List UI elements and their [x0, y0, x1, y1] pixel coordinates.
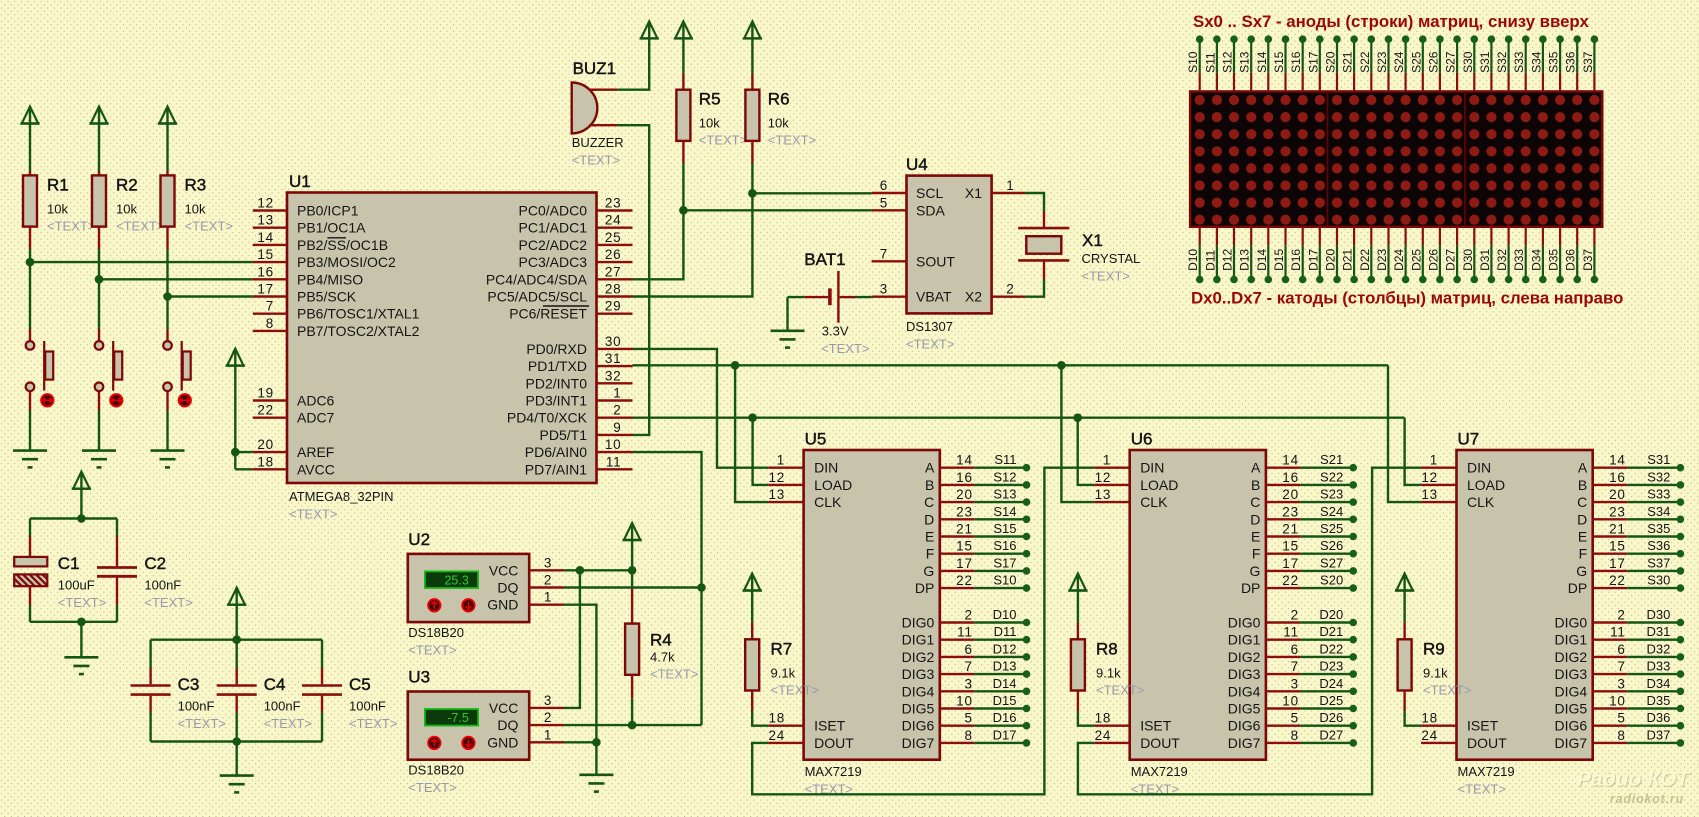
svg-text:15: 15 — [1609, 539, 1626, 554]
svg-text:VBAT: VBAT — [916, 289, 952, 305]
&lt;TEXT&gt; of U7 — [1458, 782, 1506, 797]
svg-text:D: D — [1250, 511, 1260, 527]
svg-text:E: E — [1251, 529, 1260, 545]
wire CLK branch to U6 — [1061, 365, 1094, 502]
terminal dot D35 end — [1677, 705, 1685, 713]
pin 16 B of U6, net S22 — [1251, 469, 1353, 493]
junction R4 bottom node — [628, 721, 637, 730]
svg-text:S17: S17 — [1306, 51, 1320, 73]
down button of U2 — [462, 599, 474, 611]
resistor R1 body — [23, 175, 37, 226]
svg-text:21: 21 — [956, 522, 973, 537]
svg-text:8: 8 — [1291, 728, 1299, 743]
op U5 box (MAX7219) — [804, 450, 940, 760]
wire LOAD branch to U7 — [1405, 418, 1422, 485]
pin 1 X1 of U4 — [965, 178, 1025, 201]
terminal dot terminal S20 — [1333, 35, 1341, 43]
terminal dot terminal S21 — [1350, 35, 1358, 43]
svg-text:S22: S22 — [1358, 51, 1372, 73]
svg-text:20: 20 — [1282, 487, 1299, 502]
svg-text:3: 3 — [544, 555, 552, 570]
pin 7 SOUT of U4 — [872, 246, 956, 269]
svg-text:R8: R8 — [1096, 639, 1118, 658]
junction R2 / PB net — [95, 275, 104, 284]
value 9.1k of R9 — [1423, 665, 1448, 680]
svg-text:DIG6: DIG6 — [1228, 718, 1261, 734]
svg-text:<TEXT>: <TEXT> — [1458, 782, 1506, 797]
svg-text:DIG4: DIG4 — [1555, 683, 1588, 699]
svg-text:S11: S11 — [1203, 52, 1217, 73]
terminal dot terminal D22 — [1368, 276, 1376, 284]
op U1 box (ATMEGA8) — [287, 193, 597, 484]
&lt;TEXT&gt; of X1 — [1082, 269, 1130, 284]
terminal dot terminal D34 — [1539, 276, 1547, 284]
svg-text:3: 3 — [964, 676, 972, 691]
value BUZZER of BUZ1 — [572, 135, 624, 150]
svg-text:S10: S10 — [1186, 51, 1200, 73]
pin 8 PB7/TOSC2/XTAL2 of U1 — [253, 316, 420, 339]
terminal dot terminal S17 — [1316, 35, 1324, 43]
matrix cathode pin D13 — [1238, 227, 1252, 280]
pin 21 E of U7, net S35 — [1578, 521, 1681, 545]
op U6 box (MAX7219) — [1130, 450, 1266, 760]
svg-text:F: F — [1579, 546, 1588, 562]
power symbol VCC arrow above R near U5 — [743, 574, 762, 591]
pin 7 PB6/TOSC1/XTAL1 of U1 — [253, 299, 420, 322]
matrix anode pin S22 — [1358, 39, 1372, 91]
svg-text:<TEXT>: <TEXT> — [572, 153, 620, 168]
svg-text:<TEXT>: <TEXT> — [771, 682, 819, 697]
svg-text:14: 14 — [257, 230, 274, 245]
svg-text:S16: S16 — [1289, 51, 1303, 73]
svg-text:DIG1: DIG1 — [1555, 632, 1588, 648]
wire U4 X1 pin to crystal — [1025, 193, 1044, 227]
pin 16 B of U7, net S32 — [1578, 469, 1681, 493]
matrix anode pin S20 — [1324, 39, 1338, 91]
terminal dot terminal S24 — [1402, 35, 1410, 43]
value 100nF of C3 — [178, 699, 215, 714]
pin 22 ADC7 of U1 — [253, 403, 335, 426]
svg-text:DIG5: DIG5 — [902, 701, 935, 717]
svg-text:CLK: CLK — [814, 494, 842, 510]
matrix anode pin S36 — [1564, 39, 1578, 91]
svg-text:S13: S13 — [1238, 51, 1252, 73]
wire net R3 to U1 — [168, 295, 253, 297]
wire VCC branch down to U3 VCC — [564, 570, 580, 708]
matrix cathode pin D20 — [1324, 227, 1338, 280]
terminal dot terminal D10 — [1196, 276, 1204, 284]
pin 21 E of U6, net S25 — [1251, 521, 1353, 545]
svg-text:G: G — [1576, 563, 1587, 579]
svg-text:<TEXT>: <TEXT> — [349, 716, 397, 731]
power symbol VCC arrow above R3 — [158, 107, 177, 124]
svg-text:DIG2: DIG2 — [1228, 649, 1261, 665]
svg-text:1: 1 — [613, 386, 621, 401]
svg-text:5: 5 — [1291, 711, 1299, 726]
svg-text:DIG0: DIG0 — [1555, 615, 1588, 631]
pin 20 C of U5, net S13 — [924, 487, 1026, 511]
op U7 box (MAX7219) — [1457, 450, 1593, 760]
terminal dot S24 end — [1349, 516, 1357, 524]
svg-text:D15: D15 — [1272, 249, 1286, 271]
svg-text:<TEXT>: <TEXT> — [264, 716, 312, 731]
pin 5 DIG6 of U6, net D26 — [1228, 710, 1353, 734]
svg-text:D35: D35 — [1647, 693, 1671, 708]
svg-text:<TEXT>: <TEXT> — [58, 595, 106, 610]
pin 11 DIG1 of U5, net D11 — [902, 624, 1027, 648]
resistor R4 body — [625, 624, 639, 675]
svg-text:13: 13 — [1421, 487, 1438, 502]
terminal dot D37 end — [1677, 739, 1685, 747]
pin 10 DIG5 of U6, net D25 — [1228, 693, 1353, 717]
svg-text:11: 11 — [1283, 625, 1299, 640]
terminal dot S33 end — [1677, 498, 1685, 506]
pin 20 C of U6, net S23 — [1250, 487, 1353, 511]
wire C3/C4/C5 bottom to ground — [235, 742, 237, 776]
wire R1 bottom to button SW1 — [29, 227, 31, 341]
svg-text:PB6/TOSC1/XTAL1: PB6/TOSC1/XTAL1 — [297, 306, 420, 322]
svg-text:DIG5: DIG5 — [1228, 701, 1261, 717]
terminal dot S11 end — [1023, 464, 1031, 472]
value 100uF of C1 — [58, 578, 95, 593]
svg-text:GND: GND — [487, 597, 518, 613]
svg-text:A: A — [925, 460, 935, 476]
svg-text:1: 1 — [777, 453, 785, 468]
svg-text:DS18B20: DS18B20 — [408, 763, 464, 778]
wire C1/C2 bottom rail — [30, 621, 117, 623]
svg-text:S37: S37 — [1581, 51, 1595, 73]
pin 24 DOUT of U6 — [1094, 728, 1180, 751]
svg-text:E: E — [1578, 529, 1587, 545]
svg-text:DS1307: DS1307 — [906, 319, 953, 334]
terminal dot terminal D16 — [1299, 276, 1307, 284]
svg-text:6: 6 — [1617, 642, 1625, 657]
svg-text:S23: S23 — [1320, 487, 1343, 502]
svg-text:DP: DP — [1568, 580, 1587, 596]
pin 15 F of U5, net S16 — [926, 538, 1027, 562]
svg-text:DIG6: DIG6 — [902, 718, 935, 734]
matrix anode pin S30 — [1461, 39, 1475, 91]
pin 7 DIG3 of U7, net D33 — [1555, 659, 1681, 683]
pin 10 DIG5 of U5, net D15 — [902, 693, 1027, 717]
label C2 — [144, 554, 166, 573]
terminal dot D15 end — [1023, 705, 1031, 713]
svg-text:R6: R6 — [768, 90, 790, 109]
pin 12 LOAD of U5 — [768, 470, 852, 493]
label R7 — [771, 639, 793, 658]
svg-text:S27: S27 — [1444, 51, 1458, 73]
terminal dot S14 end — [1023, 516, 1031, 524]
svg-text:2: 2 — [964, 608, 972, 623]
matrix cathode pin D35 — [1547, 227, 1561, 280]
svg-text:R5: R5 — [699, 90, 721, 109]
svg-text:23: 23 — [605, 196, 622, 211]
matrix anode pin S23 — [1375, 39, 1389, 91]
svg-text:-7.5: -7.5 — [447, 711, 469, 725]
matrix anode pin S31 — [1478, 39, 1492, 91]
svg-text:<TEXT>: <TEXT> — [289, 507, 337, 522]
svg-text:16: 16 — [1609, 470, 1626, 485]
wire R2 bottom to button SW2 — [98, 227, 100, 341]
svg-text:S12: S12 — [993, 469, 1016, 484]
&lt;TEXT&gt; of BAT1 — [821, 341, 869, 356]
svg-text:G: G — [923, 563, 934, 579]
svg-text:S30: S30 — [1647, 573, 1670, 588]
svg-text:DQ: DQ — [497, 580, 518, 596]
wire R7 to U5 ISET — [752, 691, 768, 726]
terminal dot terminal D24 — [1402, 276, 1410, 284]
wire net R1 to U1 — [30, 261, 253, 263]
wire GND net U3 — [564, 741, 597, 743]
junction C1/C2 bottom — [77, 618, 86, 627]
value 100nF of C4 — [264, 699, 301, 714]
svg-text:D17: D17 — [1306, 249, 1320, 271]
svg-text:<TEXT>: <TEXT> — [906, 337, 954, 352]
svg-text:D36: D36 — [1564, 249, 1578, 271]
pin 11 PD7/AIN1 of U1 — [525, 454, 633, 477]
svg-text:D24: D24 — [1319, 676, 1343, 691]
terminal dot D20 end — [1349, 619, 1357, 627]
pin 13 CLK of U6 — [1094, 487, 1168, 510]
svg-text:9.1k: 9.1k — [1423, 665, 1448, 680]
terminal dot S35 end — [1677, 533, 1685, 541]
svg-text:27: 27 — [605, 264, 622, 279]
matrix cathode pin D25 — [1409, 227, 1423, 280]
svg-text:18: 18 — [257, 454, 274, 469]
terminal dot D22 end — [1349, 653, 1357, 661]
svg-text:S26: S26 — [1320, 538, 1343, 553]
terminal dot D24 end — [1349, 688, 1357, 696]
wire battery to ground — [786, 297, 788, 331]
svg-text:S20: S20 — [1324, 51, 1338, 73]
pin 25 PC2/ADC2 of U1 — [519, 230, 633, 253]
svg-text:10k: 10k — [185, 201, 206, 216]
matrix anode pin S16 — [1289, 39, 1303, 91]
pin 2 DIG0 of U5, net D10 — [902, 607, 1027, 631]
pin 23 D of U6, net S24 — [1250, 504, 1353, 528]
svg-text:4.7k: 4.7k — [650, 650, 675, 665]
wire R3 bottom to button SW3 — [166, 227, 168, 341]
pin 3 DIG4 of U6, net D24 — [1228, 676, 1353, 700]
terminal dot terminal S14 — [1265, 35, 1273, 43]
capacitor C4 — [217, 640, 257, 742]
svg-text:C2: C2 — [144, 554, 166, 573]
matrix cathode pin D36 — [1564, 227, 1578, 280]
svg-text:100uF: 100uF — [58, 578, 95, 593]
button SW3 actuator marker — [179, 394, 191, 406]
svg-text:20: 20 — [1609, 487, 1626, 502]
ground ground below sensors — [579, 775, 613, 792]
svg-text:D14: D14 — [1255, 249, 1269, 271]
value DS18B20 of U3 — [408, 763, 464, 778]
svg-text:DIN: DIN — [1467, 460, 1491, 476]
svg-text:D26: D26 — [1319, 710, 1343, 725]
svg-text:10k: 10k — [116, 201, 137, 216]
button SW1 actuator marker — [41, 394, 53, 406]
svg-text:DOUT: DOUT — [814, 735, 854, 751]
terminal dot S20 end — [1349, 584, 1357, 592]
svg-text:PC4/ADC4/SDA: PC4/ADC4/SDA — [486, 271, 588, 287]
junction U2 DQ node — [697, 583, 706, 592]
power symbol VCC arrow above C3 C4 C5 — [227, 588, 246, 605]
matrix cathode pin D34 — [1529, 227, 1543, 280]
terminal dot terminal S11 — [1213, 35, 1221, 43]
svg-text:<TEXT>: <TEXT> — [699, 133, 747, 148]
terminal dot D16 end — [1023, 722, 1031, 730]
svg-text:D30: D30 — [1461, 249, 1475, 271]
terminal dot D23 end — [1349, 670, 1357, 678]
label R8 — [1096, 639, 1118, 658]
svg-text:G: G — [1250, 563, 1261, 579]
svg-text:U6: U6 — [1131, 430, 1153, 449]
svg-text:7: 7 — [1617, 659, 1625, 674]
svg-text:PC0/ADC0: PC0/ADC0 — [519, 203, 588, 219]
label U2 — [408, 530, 430, 549]
terminal dot S25 end — [1349, 533, 1357, 541]
value 10k of R6 — [768, 116, 789, 131]
svg-text:S14: S14 — [993, 504, 1016, 519]
svg-text:7: 7 — [1291, 659, 1299, 674]
junction CLK node U5 — [731, 361, 740, 370]
label U6 — [1131, 430, 1153, 449]
svg-text:1: 1 — [544, 590, 552, 605]
ground ground below SW2 — [82, 451, 116, 468]
terminal dot terminal S35 — [1556, 35, 1564, 43]
svg-text:F: F — [926, 546, 935, 562]
svg-text:2: 2 — [1291, 608, 1299, 623]
pin 24 DOUT of U7 — [1421, 728, 1507, 751]
svg-text:S34: S34 — [1529, 51, 1543, 73]
pin 1 PD3/INT1 of U1 — [526, 386, 633, 409]
terminal dot terminal S31 — [1488, 35, 1496, 43]
svg-text:2: 2 — [544, 710, 552, 725]
label X1 — [1082, 231, 1103, 250]
svg-text:S13: S13 — [993, 487, 1016, 502]
wire VCC arrow to AREF/AVCC — [235, 366, 253, 470]
svg-text:9: 9 — [613, 420, 621, 435]
terminal dot S31 end — [1677, 464, 1685, 472]
pin 22 DP of U6, net S20 — [1241, 573, 1353, 597]
pin 2 DIG0 of U6, net D20 — [1228, 607, 1353, 631]
pin 3 DIG4 of U7, net D34 — [1555, 676, 1681, 700]
pin 21 E of U5, net S15 — [925, 521, 1027, 545]
svg-text:DIG0: DIG0 — [902, 615, 935, 631]
pin 15 F of U6, net S26 — [1252, 538, 1353, 562]
pin 3 DIG4 of U5, net D14 — [902, 676, 1027, 700]
junction CLK node U6 — [1057, 361, 1066, 370]
svg-text:2: 2 — [1617, 608, 1625, 623]
svg-text:7: 7 — [880, 246, 888, 261]
svg-text:B: B — [1251, 477, 1260, 493]
svg-text:23: 23 — [1282, 504, 1299, 519]
svg-text:C5: C5 — [349, 675, 371, 694]
ground ground below C3/C4/C5 — [220, 776, 254, 793]
svg-text:B: B — [1578, 477, 1587, 493]
svg-text:PC3/ADC3: PC3/ADC3 — [519, 254, 588, 270]
label R3 — [185, 175, 207, 194]
svg-text:D: D — [1577, 511, 1587, 527]
svg-text:30: 30 — [605, 334, 622, 349]
svg-text:100nF: 100nF — [264, 699, 301, 714]
ground ground below SW3 — [151, 451, 185, 468]
svg-text:17: 17 — [956, 556, 973, 571]
svg-text:5: 5 — [1617, 711, 1625, 726]
svg-text:1: 1 — [1006, 178, 1014, 193]
svg-text:U1: U1 — [289, 172, 311, 191]
svg-text:21: 21 — [1609, 522, 1626, 537]
svg-text:32: 32 — [605, 368, 622, 383]
svg-text:A: A — [1578, 460, 1588, 476]
terminal dot S13 end — [1023, 498, 1031, 506]
svg-text:9.1k: 9.1k — [771, 665, 796, 680]
svg-text:100nF: 100nF — [178, 699, 215, 714]
svg-text:DS18B20: DS18B20 — [408, 625, 464, 640]
svg-text:R4: R4 — [650, 631, 672, 650]
pin 20 AREF of U1 — [253, 437, 335, 460]
svg-text:D25: D25 — [1409, 249, 1423, 271]
value 100nF of C5 — [349, 699, 386, 714]
matrix anode pin S35 — [1547, 39, 1561, 91]
pin 2 X2 of U4 — [965, 282, 1025, 305]
pin 26 PC3/ADC3 of U1 — [519, 247, 633, 270]
svg-text:20: 20 — [257, 437, 274, 452]
svg-text:SCL: SCL — [916, 185, 943, 201]
svg-text:S37: S37 — [1647, 555, 1670, 570]
svg-text:CRYSTAL: CRYSTAL — [1082, 251, 1141, 266]
svg-text:radiokot.ru: radiokot.ru — [1610, 792, 1684, 806]
pin 17 G of U6, net S27 — [1250, 555, 1354, 579]
label R2 — [116, 175, 138, 194]
matrix cathode pin D26 — [1426, 227, 1440, 280]
terminal dot S37 end — [1677, 567, 1685, 575]
svg-text:S11: S11 — [994, 452, 1016, 467]
svg-text:12: 12 — [768, 470, 785, 485]
svg-text:MAX7219: MAX7219 — [805, 764, 862, 779]
svg-text:3.3V: 3.3V — [822, 324, 849, 339]
svg-text:10: 10 — [1609, 694, 1626, 709]
svg-text:17: 17 — [1282, 556, 1299, 571]
svg-text:PD3/INT1: PD3/INT1 — [526, 393, 588, 409]
wire net R2 to U1 — [99, 278, 253, 280]
svg-text:12: 12 — [1095, 470, 1112, 485]
terminal dot S12 end — [1023, 481, 1031, 489]
svg-text:DIN: DIN — [1140, 460, 1164, 476]
terminal dot S23 end — [1349, 498, 1357, 506]
svg-text:S36: S36 — [1647, 538, 1670, 553]
matrix cathode pin D22 — [1358, 227, 1372, 280]
matrix anode pin S10 — [1186, 39, 1200, 91]
wire arrow to R5 — [682, 38, 684, 90]
battery BAT1 — [788, 271, 872, 323]
pin 11 DIG1 of U6, net D21 — [1228, 624, 1353, 648]
svg-text:<TEXT>: <TEXT> — [1082, 269, 1130, 284]
terminal dot D31 end — [1677, 636, 1685, 644]
svg-text:10k: 10k — [768, 116, 789, 131]
capacitor C2 — [97, 519, 137, 622]
junction C3/C4/C5 top — [232, 635, 241, 644]
pin 18 ISET of U6 — [1094, 711, 1171, 734]
terminal dot terminal S36 — [1573, 35, 1581, 43]
matrix anode pin S27 — [1444, 39, 1458, 91]
svg-text:D34: D34 — [1647, 676, 1671, 691]
terminal dot terminal D13 — [1247, 276, 1255, 284]
svg-text:DIG3: DIG3 — [902, 666, 935, 682]
power symbol VCC arrow above R1 — [20, 107, 39, 124]
svg-text:D11: D11 — [1203, 249, 1217, 270]
matrix cathode pin D14 — [1255, 227, 1269, 280]
pin 8 DIG7 of U5, net D17 — [902, 727, 1027, 751]
svg-text:DIG5: DIG5 — [1555, 701, 1588, 717]
